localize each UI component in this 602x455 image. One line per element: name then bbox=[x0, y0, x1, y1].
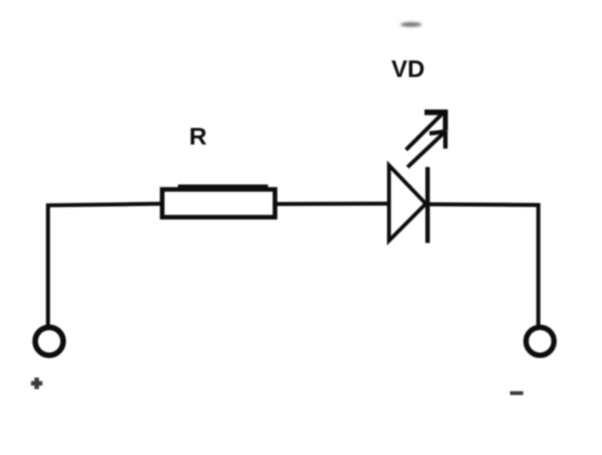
stray mark bbox=[401, 22, 422, 27]
terminal + bbox=[35, 327, 63, 355]
wire bbox=[48, 204, 160, 325]
svg-text:R: R bbox=[189, 124, 207, 151]
LED VD bbox=[389, 110, 448, 243]
wire bbox=[277, 202, 389, 206]
resistor R bbox=[162, 187, 275, 217]
label + bbox=[31, 378, 42, 390]
svg-text:VD: VD bbox=[391, 56, 424, 83]
wire bbox=[427, 204, 538, 325]
terminal - bbox=[526, 327, 554, 355]
label - bbox=[510, 391, 523, 395]
